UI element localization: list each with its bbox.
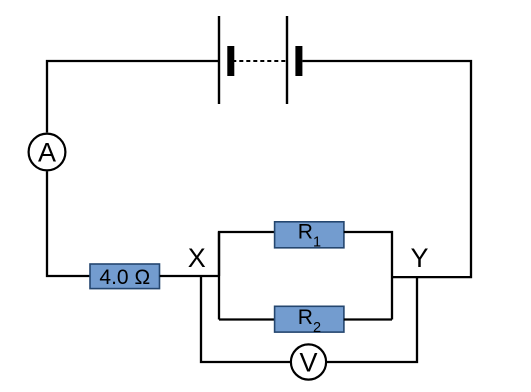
svg-text:Y: Y	[410, 243, 428, 273]
wire voltmeter tap right to node Y	[327, 277, 417, 362]
wire from resistor to node X and parallel block	[160, 275, 219, 277]
ammeter A	[29, 134, 66, 171]
resistor R2	[275, 306, 344, 336]
svg-text:V: V	[299, 348, 317, 378]
svg-text:A: A	[38, 137, 56, 167]
battery cell 1 long plate	[218, 16, 220, 104]
wire top branch right segment and right vertical of parallel block	[344, 232, 392, 320]
svg-text:4.0 Ω: 4.0 Ω	[99, 266, 150, 289]
wire top-right from battery to right rail down to node Y rail	[302, 61, 471, 277]
wire left rail below ammeter to resistor	[47, 172, 91, 277]
wire bottom branch right segment	[344, 318, 392, 320]
wire top-left from battery to left rail	[47, 61, 219, 132]
resistor R1	[275, 221, 344, 251]
resistor 4.0 ohm	[90, 264, 160, 289]
dashed wire between battery cells	[232, 60, 287, 62]
wire voltmeter tap left from node X	[201, 277, 290, 362]
battery cell 2 short thick plate	[295, 46, 302, 76]
battery cell 2 long plate	[286, 16, 288, 104]
wire bottom branch left segment	[219, 318, 275, 320]
svg-text:X: X	[188, 243, 206, 273]
voltmeter V	[291, 344, 326, 379]
wire top branch left segment	[219, 232, 275, 320]
wire parallel block left vertical	[218, 232, 220, 276]
battery cell 1 short thick plate	[227, 46, 234, 76]
